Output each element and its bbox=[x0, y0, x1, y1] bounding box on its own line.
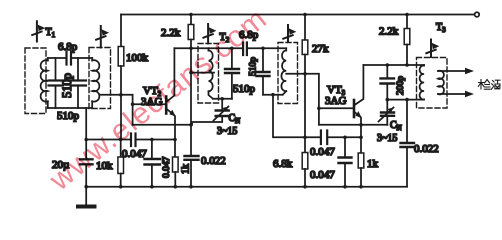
node emitter wire stage2 bbox=[359, 136, 363, 140]
node 6.8k top bbox=[303, 136, 307, 140]
capacitor 510p T2 sec bbox=[262, 48, 264, 72]
capacitor 6.8p stage2 bbox=[243, 43, 247, 56]
wire collector VT3 to T3 bbox=[363, 64, 424, 66]
node emitter wire stage1 bbox=[173, 138, 177, 142]
resistor 10k bbox=[120, 140, 122, 158]
node 2.2k2 bottom bbox=[405, 63, 409, 67]
resistor 2.2k stage1 bbox=[190, 15, 192, 25]
node bypass1 top bbox=[150, 138, 154, 142]
transistor VT3 bbox=[353, 100, 356, 117]
capacitor 0.047 bypass stage1 bbox=[151, 140, 153, 160]
wire ground rail bbox=[86, 186, 407, 188]
node 510p T2sec top bbox=[261, 47, 265, 51]
svg-text:0.047: 0.047 bbox=[310, 169, 335, 181]
svg-text:3AG: 3AG bbox=[325, 95, 346, 107]
trimmer CN stage1 bbox=[221, 99, 223, 110]
wire sec bottom drop bbox=[273, 95, 321, 138]
svg-text:1k: 1k bbox=[367, 158, 379, 170]
svg-text:2.2k: 2.2k bbox=[161, 27, 181, 39]
inductor T2 secondary bbox=[283, 48, 287, 94]
wire T3 tank bottom bbox=[387, 99, 424, 101]
wire base VT3 bbox=[319, 107, 354, 109]
capacitor 20u bbox=[85, 140, 87, 160]
wire tap T2 bbox=[191, 72, 214, 74]
svg-text:0.022: 0.022 bbox=[414, 143, 439, 155]
svg-text:6.8p: 6.8p bbox=[58, 41, 78, 53]
node rail bypass1 bbox=[150, 185, 154, 189]
shield box T2 secondary bbox=[278, 43, 298, 104]
node 200p top bbox=[386, 63, 390, 67]
resistor 6.8k bbox=[304, 137, 306, 152]
capacitor 0.047 series stage2 bbox=[321, 131, 327, 145]
node base junction bbox=[131, 102, 135, 106]
core-adjust arrow T2 bbox=[203, 24, 212, 43]
svg-text:0.047: 0.047 bbox=[310, 146, 335, 158]
node rail-2.2k2 bbox=[405, 13, 409, 17]
shield box T1 left bbox=[25, 48, 46, 114]
wire 100k feed bbox=[120, 15, 122, 47]
capacitor 510p T2 primary bbox=[231, 48, 233, 69]
node rail 20u bbox=[84, 185, 88, 189]
wire under VT2 bbox=[133, 124, 191, 126]
shield box T2 primary bbox=[198, 44, 219, 104]
capacitor 0.022 stage1 bbox=[185, 156, 199, 160]
svg-text:6.8k: 6.8k bbox=[273, 158, 293, 170]
svg-text:0.047: 0.047 bbox=[162, 156, 172, 178]
wire T1 tank top bbox=[48, 57, 66, 59]
wire collector to T2 bbox=[174, 47, 208, 49]
svg-text:510p: 510p bbox=[249, 57, 259, 76]
resistor 2.2k stage2 bbox=[406, 15, 408, 29]
transistor VT2 bbox=[165, 97, 168, 114]
node T2 sec bottom bbox=[271, 93, 275, 97]
inductor T1 secondary bbox=[91, 58, 93, 108]
core-adjust arrow T2sec bbox=[283, 25, 292, 42]
node rail 6.8k bbox=[303, 185, 307, 189]
node rail 1k2 bbox=[359, 185, 363, 189]
node rail-2.2k1 bbox=[189, 13, 193, 17]
core-adjust arrow T1b bbox=[96, 26, 105, 48]
svg-text:200p: 200p bbox=[396, 76, 406, 95]
wire output bottom bbox=[438, 93, 467, 95]
wire T2 sec tap bbox=[286, 74, 319, 125]
wire base VT2 bbox=[133, 103, 166, 105]
inductor T3 secondary bbox=[438, 71, 444, 95]
wire T2 tank top bbox=[209, 47, 243, 49]
node base VT3 bbox=[317, 107, 321, 111]
node tank3 bottom bbox=[386, 98, 390, 102]
wire tap corner down bbox=[132, 95, 134, 125]
wire top supply rail bbox=[121, 14, 475, 16]
node tap T2 bbox=[189, 71, 193, 75]
capacitor 200p bbox=[386, 65, 388, 78]
ground bbox=[85, 187, 87, 205]
shield box T1 right bbox=[89, 48, 111, 109]
node 100k-tap bbox=[119, 93, 123, 97]
node bias20u bbox=[84, 138, 88, 142]
svg-text:510p: 510p bbox=[60, 73, 74, 98]
wire T1 tap to base bbox=[100, 94, 133, 96]
wire T2 sec bottom bbox=[263, 94, 283, 96]
svg-text:510p: 510p bbox=[57, 110, 80, 122]
inductor T3 primary bbox=[423, 65, 425, 100]
svg-text:3~15: 3~15 bbox=[217, 126, 237, 137]
node 0.022b top bbox=[405, 98, 409, 102]
svg-text:27k: 27k bbox=[312, 43, 329, 55]
node 27k-tap bbox=[303, 72, 307, 76]
capacitor 510p tank1 bbox=[55, 58, 57, 108]
node collector-2.2k bbox=[189, 47, 193, 51]
node bias divider bbox=[119, 138, 123, 142]
wire bias node stage1 bbox=[86, 139, 130, 141]
capacitor 0.047 series stage1 bbox=[131, 134, 136, 147]
wire under VT3 bbox=[319, 124, 387, 126]
core-adjust arrow T3 bbox=[426, 40, 435, 58]
core-adjust arrow T1 bbox=[32, 21, 41, 41]
inductor T2 primary bbox=[209, 48, 214, 99]
node rail 1k1 bbox=[174, 185, 178, 189]
capacitor 0.047 bypass stage2 bbox=[344, 137, 346, 157]
wire T1 tank bottom bbox=[48, 107, 92, 109]
resistor 1k stage1 bbox=[173, 157, 179, 172]
node rail-27k bbox=[303, 13, 307, 17]
resistor 27k bbox=[304, 15, 306, 41]
node CN1 top bbox=[220, 97, 224, 101]
terminal +V bbox=[475, 12, 480, 17]
node rail 0.022a bbox=[189, 185, 193, 189]
node under VT2 bbox=[189, 123, 193, 127]
trimmer CN stage2 bbox=[381, 113, 394, 116]
label jianbo (detector) bbox=[478, 80, 500, 90]
svg-text:2.2k: 2.2k bbox=[379, 26, 399, 38]
capacitor 0.022 stage2 bbox=[406, 100, 408, 143]
node 510p T2pri bbox=[230, 47, 234, 51]
capacitor 510p tank2 bbox=[77, 58, 79, 108]
capacitor 6.8p stage1 bbox=[67, 52, 72, 65]
wire T2 sec top bbox=[263, 47, 286, 49]
wire output top bbox=[438, 70, 467, 72]
wire T1 bottom drop bbox=[85, 108, 87, 140]
node rail bypass2 bbox=[343, 185, 347, 189]
shield box T3 bbox=[417, 58, 448, 109]
node bypass2 top bbox=[343, 136, 347, 140]
wire T2 tank bottom bbox=[213, 98, 232, 100]
resistor 1k stage2 bbox=[358, 153, 364, 168]
node rail 10k bbox=[119, 185, 123, 189]
svg-text:510p: 510p bbox=[233, 83, 256, 95]
svg-text:100k: 100k bbox=[126, 52, 149, 64]
svg-text:3~15: 3~15 bbox=[377, 133, 397, 144]
svg-text:1k: 1k bbox=[181, 164, 192, 174]
node emitter-CN2 wire bbox=[359, 123, 363, 127]
svg-text:0.022: 0.022 bbox=[201, 155, 226, 167]
resistor 100k bbox=[118, 47, 124, 67]
inductor T1 primary bbox=[47, 58, 49, 108]
